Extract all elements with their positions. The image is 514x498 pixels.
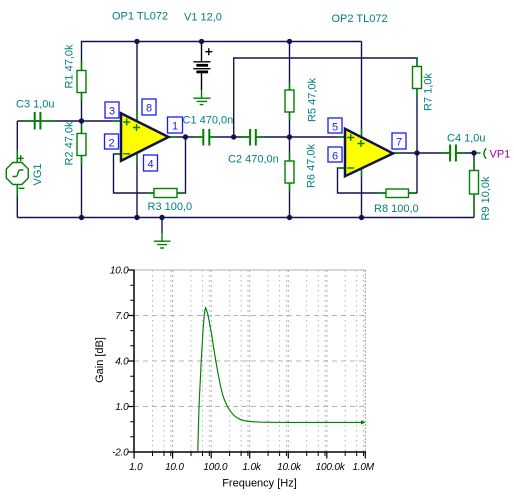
lead OP1 output	[169, 136, 178, 138]
pin box 7	[392, 133, 406, 149]
lead C4	[441, 152, 465, 154]
wire: ground rail bottom	[17, 217, 474, 219]
x-axis major ticks	[134, 452, 365, 459]
svg-text:6: 6	[332, 151, 338, 163]
svg-text:R2 47,0k: R2 47,0k	[64, 121, 76, 166]
svg-text:100.0: 100.0	[203, 462, 228, 473]
ground on bottom rail	[154, 218, 171, 249]
ground under V1	[193, 90, 210, 105]
node: VP1/R9 node	[471, 150, 476, 155]
lead R5	[289, 82, 291, 120]
wire: R5 column	[289, 42, 291, 138]
label C3 1,0u	[16, 99, 55, 111]
wire: C2 to node B	[257, 136, 290, 138]
svg-text:4.0: 4.0	[115, 357, 129, 368]
pin box 6	[328, 147, 342, 163]
lead OP2 pin6	[338, 167, 346, 169]
svg-text:10.0: 10.0	[165, 462, 184, 473]
node: OP1 pin4 on ground rail	[134, 215, 139, 220]
wire: OP2 output to C4	[393, 152, 449, 154]
svg-text:Gain [dB]: Gain [dB]	[94, 337, 106, 383]
label R2 47,0k	[64, 121, 76, 166]
wire: OP1 pin3 input	[82, 120, 122, 122]
wire: junction riser to R7 feed	[234, 58, 417, 137]
generator VG1	[6, 155, 28, 188]
capacitor C3	[35, 112, 41, 130]
svg-text:4: 4	[147, 159, 153, 171]
svg-text:2: 2	[108, 138, 114, 150]
lead R1	[81, 61, 83, 101]
svg-text:5: 5	[332, 122, 338, 134]
op-amp OP1	[121, 113, 169, 161]
axis title Frequency	[222, 478, 297, 490]
label R6 47,0k	[306, 143, 318, 188]
green component lead overlays	[17, 59, 480, 214]
chart vertical gridlines minor	[153, 270, 364, 452]
wire: OP1 V+ pin 8 riser	[136, 42, 138, 126]
chart x-axis	[133, 451, 366, 453]
chart y-axis	[133, 270, 135, 453]
pin box 1	[168, 117, 183, 133]
label VG1	[32, 163, 44, 185]
resistor R8	[386, 189, 409, 198]
chart vertical gridlines major decades	[173, 270, 327, 452]
axis title Gain	[94, 337, 106, 383]
lead OP2 output	[393, 152, 401, 154]
svg-text:Frequency [Hz]: Frequency [Hz]	[222, 478, 297, 490]
probe VP1	[484, 148, 486, 158]
svg-text:1.0: 1.0	[115, 402, 129, 413]
lead R8	[378, 192, 416, 194]
lead C2	[241, 136, 264, 138]
lead R9	[473, 161, 475, 214]
svg-text:1: 1	[172, 121, 178, 133]
svg-text:R5 47,0k: R5 47,0k	[307, 77, 319, 122]
node: R2 on ground rail	[79, 215, 84, 220]
lead OP1 pin2	[114, 153, 122, 155]
wire: R9 column	[473, 153, 475, 218]
resistor R5	[285, 90, 294, 112]
wire: OP1 output to C1	[169, 136, 203, 138]
label R1 47,0k	[64, 44, 76, 89]
label R5 47,0k	[307, 77, 319, 122]
node: R1/R2/C3 input node	[79, 118, 84, 123]
wire: C1 to C2 junction	[210, 136, 249, 138]
svg-text:1.0k: 1.0k	[243, 462, 262, 473]
resistor R1	[77, 71, 86, 93]
label R8 100,0	[374, 203, 419, 215]
wire: OP2 pin5 input	[290, 136, 346, 138]
capacitor C1	[203, 129, 209, 146]
node: OP2 output	[414, 150, 419, 155]
svg-text:10.0: 10.0	[110, 266, 129, 277]
node: R6 on ground rail	[287, 215, 292, 220]
wire: positive supply rail	[82, 42, 362, 122]
y-axis minor ticks	[130, 285, 134, 437]
label C2 470,0n	[228, 154, 279, 166]
op-amp OP2	[345, 129, 393, 176]
label C4 1,0u	[447, 133, 486, 145]
wire: OP1 V- pin 4 drop	[136, 150, 138, 218]
lead OP2 pin4	[361, 168, 363, 177]
lead VP1	[474, 152, 481, 154]
svg-text:100.0k: 100.0k	[316, 462, 346, 473]
svg-text:V1 12,0: V1 12,0	[184, 12, 222, 24]
lead OP2 pin8	[361, 129, 363, 137]
lead R6	[289, 153, 291, 191]
label V1 12,0	[184, 12, 222, 24]
pin box 5	[328, 118, 342, 134]
label OP2 TL072	[332, 13, 388, 25]
wire: OP1 pin2 feedback loop through R3	[114, 137, 186, 193]
chart right border dotted	[364, 270, 366, 452]
resistor R9	[470, 171, 479, 195]
node: V1 on rail	[199, 39, 204, 44]
lead R7	[416, 59, 418, 97]
gain curve	[198, 308, 366, 452]
chart top border	[134, 269, 365, 271]
lead OP1 pin3	[112, 120, 121, 122]
wire: C3 row to node	[17, 120, 81, 122]
svg-text:7.0: 7.0	[115, 311, 129, 322]
svg-text:VP1: VP1	[490, 149, 511, 161]
svg-text:-2.0: -2.0	[112, 448, 129, 459]
resistor R2	[77, 134, 86, 156]
svg-text:C3 1,0u: C3 1,0u	[16, 99, 55, 111]
node: OP2 pin4 on ground rail	[359, 215, 364, 220]
battery V1	[193, 42, 212, 91]
label R7 1,0k	[423, 73, 435, 111]
lead OP2 pin5	[337, 136, 345, 138]
lead C1	[194, 136, 218, 138]
lead R2	[81, 125, 83, 164]
svg-text:OP1 TL072: OP1 TL072	[112, 11, 168, 23]
svg-text:10.0k: 10.0k	[277, 462, 302, 473]
pin box 8	[142, 99, 156, 115]
lead OP1 pin4	[136, 153, 138, 163]
x-axis labels	[129, 462, 375, 473]
pin box 3	[105, 102, 119, 118]
node: ground stem on rail	[159, 215, 164, 220]
lead OP1 pin8	[136, 110, 138, 121]
label R9 10,0k	[480, 176, 492, 221]
svg-text:R7 1,0k: R7 1,0k	[423, 73, 435, 111]
svg-text:VG1: VG1	[32, 163, 44, 185]
svg-text:7: 7	[396, 137, 402, 149]
wire: R7 lower lead to output node and R8 right riser	[416, 89, 418, 194]
svg-text:1.0: 1.0	[129, 462, 143, 473]
svg-text:C2 470,0n: C2 470,0n	[228, 154, 279, 166]
y-axis major ticks	[128, 270, 135, 452]
pin box 2	[105, 134, 119, 150]
svg-text:R6 47,0k: R6 47,0k	[306, 143, 318, 188]
resistor R6	[285, 161, 294, 183]
node: C1/C2 junction	[231, 134, 236, 139]
wire: OP2 pin6 feedback loop through R8	[338, 168, 418, 193]
wire: OP2 V- pin4 drop	[361, 166, 363, 218]
wire: VG1 branch	[16, 121, 18, 218]
svg-text:1.0M: 1.0M	[352, 462, 374, 473]
node: R5 on rail	[287, 39, 292, 44]
lead C3	[22, 120, 56, 122]
resistor R7	[413, 67, 422, 89]
lead VG1	[16, 150, 18, 196]
capacitor C4	[450, 145, 456, 162]
label C1 470,0n	[183, 115, 234, 127]
x-axis minor ticks	[153, 452, 364, 456]
node: OP1 V+ on rail	[134, 39, 139, 44]
svg-text:C1 470,0n: C1 470,0n	[183, 115, 234, 127]
wire: C4 to VP1 node	[457, 152, 474, 154]
capacitor C2	[250, 129, 256, 146]
svg-text:R1 47,0k: R1 47,0k	[64, 44, 76, 89]
node: OP1 output	[183, 134, 188, 139]
wire: OP2 V+ pin8 riser	[361, 42, 363, 141]
svg-text:C4 1,0u: C4 1,0u	[447, 133, 486, 145]
svg-text:OP2 TL072: OP2 TL072	[332, 13, 388, 25]
y-axis labels	[110, 266, 129, 459]
junction node dots	[79, 39, 477, 220]
node: R5/R6/C2 node	[287, 134, 292, 139]
wire: R6 column	[289, 137, 291, 218]
lead R3	[146, 192, 185, 194]
label VP1	[490, 149, 511, 161]
svg-text:8: 8	[146, 103, 152, 115]
svg-text:R8 100,0: R8 100,0	[374, 203, 419, 215]
resistor R3	[154, 189, 177, 198]
chart horizontal gridlines	[134, 316, 365, 407]
label R3 100,0	[148, 201, 193, 213]
label OP1 TL072	[112, 11, 168, 23]
svg-text:R3 100,0: R3 100,0	[148, 201, 193, 213]
svg-text:R9 10,0k: R9 10,0k	[480, 176, 492, 221]
svg-text:3: 3	[109, 106, 115, 118]
wire: R1/R2 column	[81, 121, 83, 218]
pin box 4	[144, 155, 158, 171]
